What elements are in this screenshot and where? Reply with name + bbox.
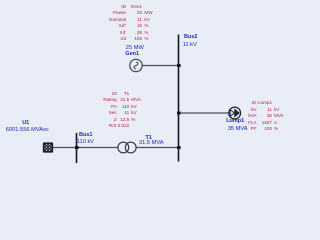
label Bus1 kV [77, 140, 94, 146]
load Lump1 [229, 107, 241, 119]
utility U1 [40, 140, 56, 156]
junction U1 wire on Bus1 [75, 146, 79, 149]
generator Gen1 [130, 59, 142, 71]
label U1 [22, 121, 29, 127]
label T1 [146, 136, 152, 142]
label T1 rating [139, 141, 164, 147]
info block Gen1 [96, 4, 126, 43]
junction Gen1 wire on Bus2 [177, 64, 181, 67]
junction Lump1 wire on Bus2 [177, 112, 181, 115]
wire T1 to Bus2 [136, 147, 178, 149]
info block T1 [87, 91, 117, 130]
bus Bus2 [178, 35, 180, 162]
one-line diagram drawing [0, 0, 300, 169]
label Lump1 [226, 119, 244, 125]
label Bus1 [79, 133, 92, 139]
junction T1 wire on Bus2 [177, 146, 181, 149]
wire Bus1 to T1 [77, 147, 119, 149]
label U1 rating [6, 128, 49, 134]
wire Bus2 to Lump1 [179, 112, 230, 114]
wire Gen1 to Bus2 [143, 65, 179, 67]
wire U1 to Bus1 [52, 147, 77, 149]
transformer T1 [118, 142, 136, 153]
label Bus2 [184, 35, 197, 41]
label Gen1 power [126, 46, 144, 52]
label Lump1 rating [228, 127, 248, 133]
label Gen1 [125, 52, 139, 58]
info block Lump1 [227, 100, 257, 133]
label Bus2 kV [183, 43, 197, 49]
bus Bus1 [76, 133, 78, 163]
